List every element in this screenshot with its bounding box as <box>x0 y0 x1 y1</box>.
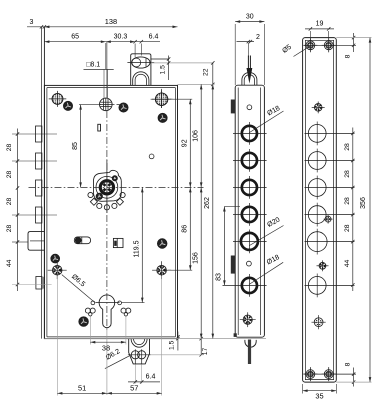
svg-text:8: 8 <box>344 362 351 366</box>
cylinder fixing clover left <box>85 308 90 313</box>
dim 22 <box>212 63 214 85</box>
screw T6 <box>79 317 89 327</box>
dim 2 <box>237 41 255 43</box>
dim 17 <box>200 339 202 355</box>
screw T5 <box>51 254 60 263</box>
plate screw row top line <box>304 44 357 46</box>
cylinder side hole right <box>118 301 122 305</box>
plate bottom extension <box>336 381 371 383</box>
dim 138 <box>44 26 177 28</box>
top latch pin dome <box>242 72 257 85</box>
svg-text:44: 44 <box>6 259 13 267</box>
left chain extensions <box>12 133 57 135</box>
plate small screw mid <box>325 216 331 222</box>
svg-text:Ø5: Ø5 <box>281 44 293 55</box>
plate knurled hole upper <box>314 104 322 112</box>
latch line extension <box>151 354 204 356</box>
top latch body <box>131 54 151 86</box>
adjusting screw top left <box>52 94 63 105</box>
svg-text:28: 28 <box>344 170 351 178</box>
svg-text:65: 65 <box>71 34 79 41</box>
top latch dome <box>133 72 149 86</box>
svg-text:85: 85 <box>72 142 79 150</box>
side bolt tab 4 <box>36 207 42 223</box>
svg-text:28: 28 <box>344 197 351 205</box>
svg-text:156: 156 <box>193 252 200 264</box>
side small hole mid <box>247 261 252 266</box>
screw T3 <box>158 113 167 122</box>
svg-text:3: 3 <box>30 19 34 26</box>
hub square 8.1 <box>100 98 113 111</box>
svg-text:6.4: 6.4 <box>149 34 159 41</box>
top latch oval <box>132 57 150 68</box>
svg-text:51: 51 <box>78 383 86 392</box>
plate target screw <box>314 318 323 327</box>
svg-text:35: 35 <box>315 392 323 401</box>
screw T2 <box>119 103 128 112</box>
follower cam outline <box>94 170 122 201</box>
dim 106 <box>200 84 202 187</box>
dim 1.5 top <box>151 58 169 60</box>
side bolt tab 2 <box>36 153 42 169</box>
svg-text:356: 356 <box>360 197 367 209</box>
side knurled screw <box>243 315 252 324</box>
dim 19 <box>309 31 311 41</box>
follower screw A <box>112 176 117 181</box>
bottom edge extension <box>44 338 266 340</box>
dim 262 <box>212 84 214 338</box>
svg-text:262: 262 <box>204 197 211 209</box>
top edge extension <box>178 83 215 85</box>
screw T4 <box>157 239 167 249</box>
side hole ring 2 <box>242 153 257 168</box>
top latch pin stem <box>247 43 249 57</box>
svg-text:6.4: 6.4 <box>146 373 156 380</box>
side hole ring 1 <box>242 126 257 141</box>
dim 57 <box>161 276 163 396</box>
follower screw B <box>96 193 102 199</box>
plate hole 4 <box>308 206 326 224</box>
lock case outline <box>44 85 177 338</box>
dim 51 <box>56 276 58 396</box>
side plate body <box>235 85 264 337</box>
deadbolt <box>28 232 44 251</box>
svg-text:17: 17 <box>202 348 209 356</box>
plate hole 3 <box>308 179 326 197</box>
hub extension line <box>105 43 107 69</box>
svg-text:38: 38 <box>102 343 110 352</box>
fixing hole 6.5 right <box>157 265 167 275</box>
dim 38 <box>89 317 91 345</box>
follower index holes <box>88 192 93 197</box>
svg-text:28: 28 <box>6 144 13 152</box>
side tab lower <box>231 256 236 274</box>
svg-text:28: 28 <box>344 224 351 232</box>
side bolt tab 5 <box>36 277 42 290</box>
svg-text:22: 22 <box>203 68 210 76</box>
svg-text:□8.1: □8.1 <box>86 62 100 69</box>
dim 30.3 <box>106 41 135 43</box>
cylinder side hole left <box>91 301 95 305</box>
plate hole 1 <box>308 124 326 142</box>
plate hole 6 <box>308 277 326 295</box>
dim 30 <box>235 21 264 23</box>
plate hole 2 <box>308 152 326 170</box>
small stud <box>98 124 101 131</box>
svg-text:86: 86 <box>182 225 189 233</box>
left chain dimension line <box>17 129 19 292</box>
svg-text:83: 83 <box>216 273 223 281</box>
svg-text:28: 28 <box>6 198 13 206</box>
plate top extension <box>336 37 371 39</box>
right chain dimension line <box>352 128 354 292</box>
svg-text:Ø18: Ø18 <box>266 254 281 266</box>
fixing hole 6.5 left <box>52 265 62 275</box>
side small hole top <box>247 105 252 110</box>
svg-text:57: 57 <box>130 383 138 392</box>
plate knurled hole lower <box>319 262 326 269</box>
svg-text:30: 30 <box>246 14 254 21</box>
dim 83 <box>224 206 240 208</box>
contact block component <box>113 238 123 247</box>
svg-text:Ø6.5: Ø6.5 <box>70 273 86 288</box>
lock case inner top edge <box>47 87 176 89</box>
adjusting screw top right <box>155 93 167 105</box>
follower ring <box>96 176 118 198</box>
svg-text:1.5: 1.5 <box>169 340 176 350</box>
svg-text:92: 92 <box>182 139 189 147</box>
dim 85 <box>79 104 101 106</box>
main centerline vertical <box>106 111 108 332</box>
plate screw top left <box>306 41 315 50</box>
side tab upper <box>231 100 236 114</box>
dim 156 <box>200 187 202 338</box>
plate hole 5 dia 20 <box>307 232 327 252</box>
dim 92 <box>170 98 193 100</box>
bottom latch body <box>129 339 150 364</box>
svg-text:Ø18: Ø18 <box>266 105 281 117</box>
side bolt tab 3 <box>36 180 42 196</box>
cylinder fixing clover right <box>121 308 126 313</box>
side hole ring 4 <box>242 207 257 222</box>
hub centerline dash <box>112 103 120 105</box>
cylinder hole <box>99 295 115 328</box>
dim 6.4 top <box>135 41 160 43</box>
plate screw row bottom line <box>304 373 357 375</box>
bottom latch pin tip <box>245 340 256 347</box>
svg-text:119.5: 119.5 <box>134 240 141 257</box>
follower centerline horizontal <box>29 186 204 188</box>
lock case inner right edge <box>174 88 176 337</box>
follower hub dark ring <box>99 179 115 195</box>
cover plate outline <box>303 38 337 383</box>
svg-text:28: 28 <box>344 143 351 151</box>
dim 86 <box>168 269 192 271</box>
lock case inner bottom edge <box>47 336 176 338</box>
dim 6.4 bottom <box>134 365 136 384</box>
svg-text:28: 28 <box>6 225 13 233</box>
side view extension lines <box>234 24 236 85</box>
svg-text:138: 138 <box>105 17 117 26</box>
svg-text:106: 106 <box>193 130 200 142</box>
dim 1.5 bottom <box>177 332 179 351</box>
svg-text:44: 44 <box>344 260 351 268</box>
svg-text:1.5: 1.5 <box>160 65 167 75</box>
spring pill component <box>74 237 90 244</box>
svg-text:Ø20: Ø20 <box>266 216 281 228</box>
screw T1 <box>63 101 72 110</box>
side hole ring 6 dia 18 <box>242 278 257 293</box>
dim 8 bottom <box>353 368 355 387</box>
side hole ring 5 dia 20 <box>241 233 258 250</box>
plate screw bottom right <box>324 370 333 379</box>
side hole ring 3 <box>242 180 257 195</box>
svg-text:28: 28 <box>6 171 13 179</box>
dim 8 top <box>353 33 355 52</box>
svg-text:19: 19 <box>316 21 324 28</box>
side bolt tab 1 <box>36 126 42 142</box>
svg-text:30.3: 30.3 <box>114 34 128 41</box>
plate screw top right <box>324 41 333 50</box>
dim 35 <box>302 384 304 394</box>
dim 119.5 <box>121 302 145 304</box>
bottom latch holes 6.2 <box>131 351 139 359</box>
plate screw bottom left <box>306 370 315 379</box>
bottom latch cup <box>131 339 147 348</box>
dim 356 <box>369 38 371 383</box>
lock case faceplate edge lines <box>41 27 43 339</box>
small hole <box>149 154 154 159</box>
svg-text:2: 2 <box>256 34 260 41</box>
svg-text:8: 8 <box>344 54 351 58</box>
dim 65 <box>44 41 105 43</box>
